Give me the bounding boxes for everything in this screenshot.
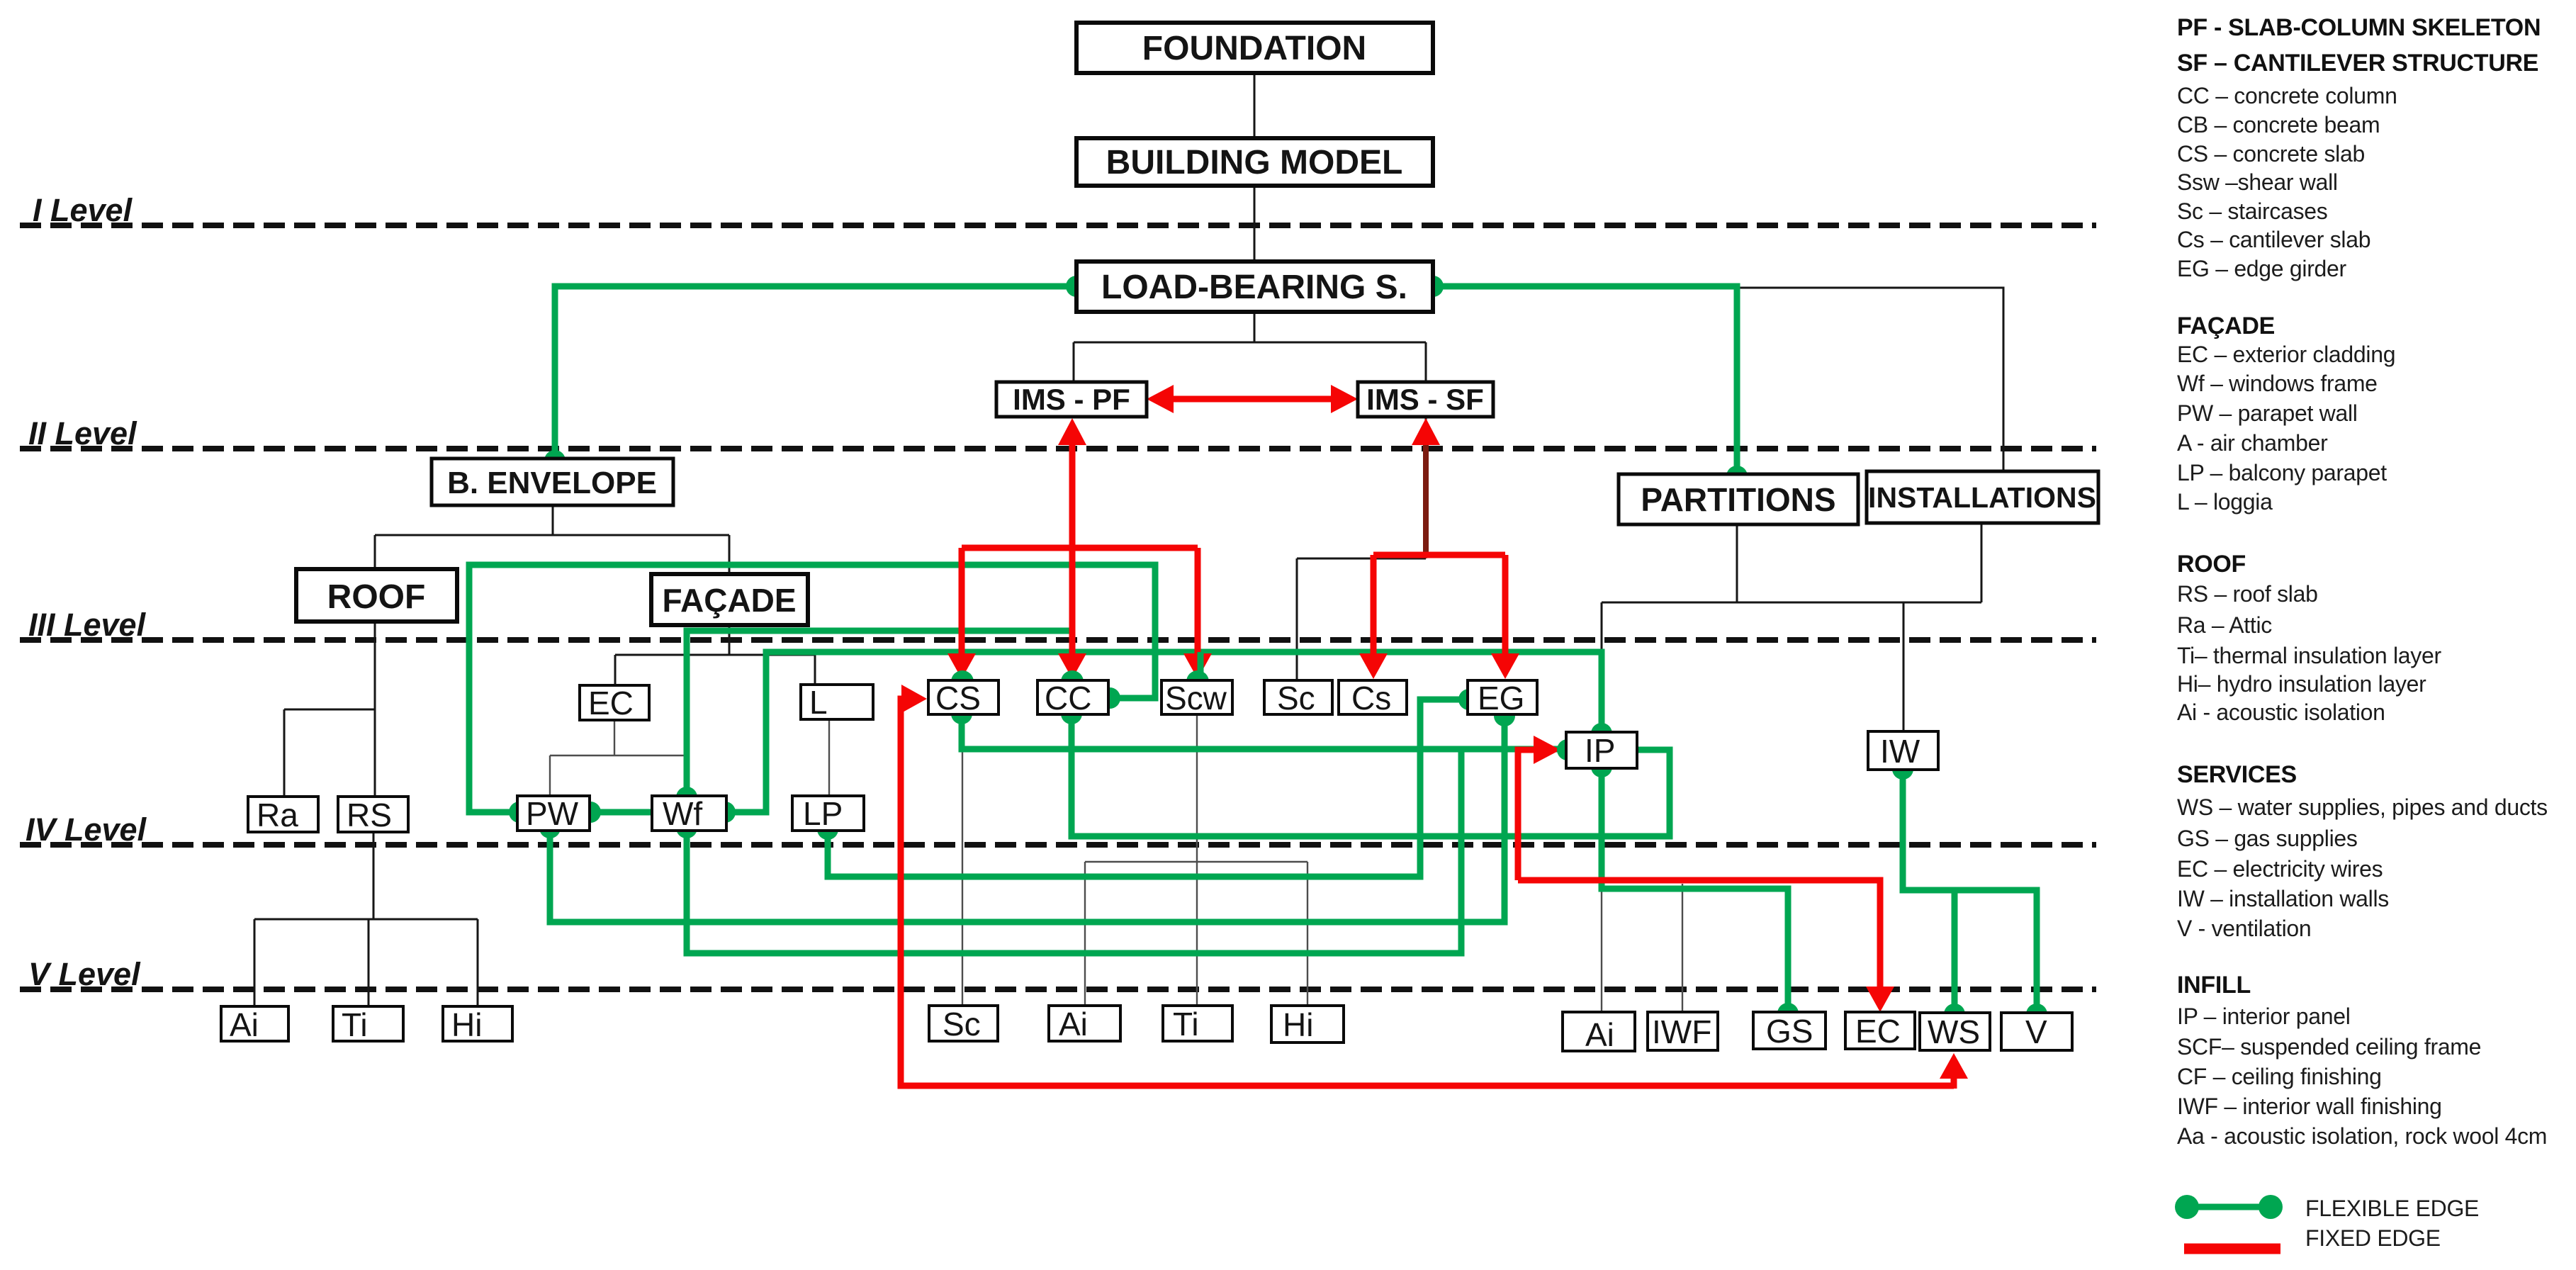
svg-text:A - air chamber: A - air chamber: [2177, 430, 2328, 456]
svg-text:Wf: Wf: [663, 795, 702, 832]
node dot Wf bottom: [676, 817, 697, 838]
flexible edge Wf bottom junction: [687, 749, 1461, 953]
node dot CC bottom: [1061, 703, 1082, 724]
node dot IP top: [1591, 723, 1612, 744]
wire FACADE to EC and L: [615, 623, 815, 685]
svg-text:IMS - SF: IMS - SF: [1366, 383, 1484, 416]
svg-text:EC – exterior cladding: EC – exterior cladding: [2177, 342, 2395, 367]
level line III: [20, 637, 2096, 643]
svg-text:L – loggia: L – loggia: [2177, 489, 2273, 515]
svg-text:CS: CS: [935, 680, 981, 717]
box Hi bottom: [1271, 1006, 1344, 1043]
wire Scw to Ai Ti Hi bottom: [1085, 714, 1307, 1006]
fixed edge IP to EC: [1518, 750, 1880, 998]
node dot WS top: [1944, 1004, 1965, 1025]
svg-text:CF – ceiling finishing: CF – ceiling finishing: [2177, 1064, 2382, 1089]
svg-text:Ra – Attic: Ra – Attic: [2177, 612, 2272, 638]
node dot LOAD-BEARING left: [1066, 276, 1087, 297]
node dot B.ENVELOPE top: [544, 450, 566, 471]
fixed edge IMS-PF tree to CS CC Scw: [962, 548, 1198, 663]
box EC services: [1845, 1012, 1915, 1049]
wire stub CS top: [960, 652, 966, 677]
svg-text:Ra: Ra: [257, 797, 298, 833]
wire stub Scw top: [1195, 652, 1201, 679]
node dot EG bottom: [1494, 705, 1515, 726]
wire PARTITIONS INSTALLATIONS to IW: [1602, 523, 1981, 732]
svg-text:PARTITIONS: PARTITIONS: [1641, 481, 1835, 518]
svg-text:EG: EG: [1478, 680, 1524, 717]
wire LOAD-BEARING S. to IMS boxes: [1074, 312, 1426, 382]
flexible edge IP bottom to GS: [1602, 768, 1788, 1012]
box IWF: [1648, 1012, 1718, 1050]
node dot CC right: [1099, 687, 1120, 709]
svg-text:EC – electricity wires: EC – electricity wires: [2177, 856, 2383, 882]
svg-text:II Level: II Level: [28, 415, 137, 451]
svg-text:Aa - acoustic isolation, rock: Aa - acoustic isolation, rock wool 4cm: [2177, 1123, 2547, 1149]
svg-text:RS – roof slab: RS – roof slab: [2177, 581, 2318, 607]
svg-text:Ai - acoustic isolation: Ai - acoustic isolation: [2177, 699, 2385, 725]
svg-text:Ai: Ai: [230, 1006, 259, 1043]
box Scw: [1162, 680, 1232, 714]
level line IV: [20, 842, 2096, 848]
svg-text:IW – installation walls: IW – installation walls: [2177, 886, 2389, 911]
svg-text:SF – CANTILEVER STRUCTURE: SF – CANTILEVER STRUCTURE: [2177, 50, 2538, 77]
svg-text:FLEXIBLE EDGE: FLEXIBLE EDGE: [2305, 1196, 2479, 1221]
flexible edge IW to WS and V: [1903, 770, 2037, 1013]
node dot CS top: [951, 670, 974, 693]
svg-text:Ti: Ti: [342, 1006, 368, 1043]
flexible edge LP to EG left: [828, 699, 1468, 877]
node dot PW right: [580, 802, 601, 823]
box Hi left: [443, 1006, 512, 1041]
wire IMS-SF to Sc: [1297, 417, 1426, 680]
svg-text:Sc: Sc: [943, 1006, 981, 1043]
svg-text:I Level: I Level: [33, 192, 133, 228]
box Wf: [652, 796, 726, 831]
fixed edge IMS-PF IMS-SF double arrow: [1165, 396, 1339, 403]
svg-text:SCF– suspended ceiling frame: SCF– suspended ceiling frame: [2177, 1034, 2481, 1060]
node dot IP right: [1610, 739, 1631, 760]
box IW: [1868, 731, 1938, 770]
node dot LOAD-BEARING right: [1422, 276, 1444, 297]
fixed edge stem into IMS-SF dark: [1423, 432, 1429, 555]
node dot PARTITIONS top: [1726, 466, 1748, 487]
svg-text:PF - SLAB-COLUMN SKELETON: PF - SLAB-COLUMN SKELETON: [2177, 14, 2541, 41]
svg-text:IP: IP: [1585, 732, 1615, 769]
wire stub Scw top over: [1198, 652, 1204, 679]
svg-text:Wf – windows frame: Wf – windows frame: [2177, 371, 2378, 396]
level line I: [20, 223, 2096, 228]
svg-text:Ai: Ai: [1059, 1006, 1088, 1043]
fixed edge IMS-SF tree to Cs EG: [1373, 555, 1505, 663]
svg-text:SERVICES: SERVICES: [2177, 761, 2297, 788]
node dot Wf right: [714, 802, 736, 823]
svg-text:GS – gas supplies: GS – gas supplies: [2177, 826, 2358, 851]
box PARTITIONS: [1619, 474, 1858, 524]
box GS: [1753, 1012, 1826, 1049]
svg-text:CS – concrete slab: CS – concrete slab: [2177, 141, 2365, 167]
svg-text:LOAD-BEARING S.: LOAD-BEARING S.: [1101, 269, 1407, 306]
svg-text:V: V: [2025, 1013, 2047, 1050]
svg-text:FAÇADE: FAÇADE: [662, 582, 796, 619]
svg-text:BUILDING MODEL: BUILDING MODEL: [1106, 144, 1403, 181]
svg-text:IWF – interior wall finishing: IWF – interior wall finishing: [2177, 1094, 2442, 1119]
svg-text:Ai: Ai: [1585, 1016, 1614, 1053]
wire FOUNDATION to BUILDING MODEL: [1254, 73, 1256, 138]
node dot IW bottom: [1892, 758, 1913, 780]
node dot V top: [2026, 1004, 2047, 1025]
svg-text:V - ventilation: V - ventilation: [2177, 916, 2311, 941]
svg-text:EC: EC: [1855, 1013, 1901, 1050]
box EC facade: [580, 685, 649, 720]
svg-text:Hi: Hi: [451, 1006, 482, 1043]
flexible edge CC bottom to IP right: [1072, 714, 1670, 836]
box WS: [1920, 1013, 1990, 1050]
wire IWF stub: [1682, 884, 1683, 1012]
svg-text:GS: GS: [1766, 1013, 1813, 1050]
svg-text:V Level: V Level: [28, 956, 141, 992]
svg-text:IW: IW: [1880, 733, 1920, 770]
flexible edge LOAD-BEARING to PARTITIONS: [1433, 286, 1737, 474]
box PW: [517, 796, 590, 831]
svg-text:IWF: IWF: [1652, 1013, 1711, 1050]
svg-text:PW – parapet wall: PW – parapet wall: [2177, 400, 2358, 426]
fixed edge WS to CS: [901, 699, 1954, 1086]
fixed edge stem into IMS-PF: [1069, 434, 1076, 548]
flexible edge LOAD-BEARING to B.ENVELOPE: [555, 286, 1076, 459]
svg-text:INFILL: INFILL: [2177, 972, 2251, 999]
flexible edge PW bottom to EG bottom: [550, 717, 1504, 922]
flexible edge CS bottom to IP left: [962, 714, 1565, 749]
box V: [2001, 1013, 2072, 1050]
svg-text:ROOF: ROOF: [2177, 551, 2246, 578]
flexible edge Wf right to IP top: [726, 652, 1602, 812]
flexible edge Wf top to CC top: [687, 631, 1072, 796]
box LOAD-BEARING S.: [1076, 262, 1433, 312]
svg-text:III Level: III Level: [28, 607, 147, 643]
wire to INSTALLATIONS: [1433, 288, 2003, 471]
box FACADE: [651, 574, 808, 625]
svg-text:Ti– thermal insulation layer: Ti– thermal insulation layer: [2177, 643, 2441, 668]
svg-text:WS – water supplies, pipes and: WS – water supplies, pipes and ducts: [2177, 794, 2548, 820]
box IP: [1566, 732, 1637, 768]
wire BUILDING MODEL to LOAD-BEARING S.: [1254, 186, 1256, 262]
svg-text:Scw: Scw: [1165, 680, 1227, 717]
box INSTALLATIONS: [1867, 471, 2098, 523]
box Ai bottom: [1049, 1006, 1120, 1041]
node dot Wf top: [676, 787, 697, 808]
box Ti bottom: [1163, 1006, 1232, 1041]
svg-text:IMS - PF: IMS - PF: [1013, 383, 1130, 416]
svg-text:CB – concrete beam: CB – concrete beam: [2177, 112, 2380, 137]
wire ROOF to Ra and RS: [284, 619, 375, 797]
node dot IP left: [1557, 739, 1578, 760]
box Ti left: [333, 1006, 403, 1041]
svg-text:CC – concrete column: CC – concrete column: [2177, 83, 2397, 108]
box B. ENVELOPE: [432, 459, 673, 505]
svg-text:FIXED EDGE: FIXED EDGE: [2305, 1225, 2441, 1251]
flexible edge PW to CC right: [469, 565, 1155, 812]
svg-text:Sc – staircases: Sc – staircases: [2177, 198, 2327, 224]
legend flexible edge sample: [2187, 1204, 2271, 1210]
svg-text:B. ENVELOPE: B. ENVELOPE: [447, 466, 657, 500]
svg-text:Cs – cantilever slab: Cs – cantilever slab: [2177, 227, 2370, 252]
svg-text:PW: PW: [526, 795, 579, 832]
box Cs mid: [1339, 680, 1407, 714]
wire CS to Sc bottom: [962, 714, 963, 1006]
wire RS to Ai Ti Hi: [254, 832, 478, 1006]
svg-text:Hi: Hi: [1283, 1006, 1313, 1043]
svg-text:Sc: Sc: [1277, 680, 1315, 717]
svg-text:Cs: Cs: [1351, 680, 1391, 717]
svg-text:L: L: [809, 684, 828, 721]
box CS: [928, 680, 999, 714]
node dot LP bottom: [817, 819, 838, 840]
svg-text:LP: LP: [803, 795, 843, 832]
box Ai left: [221, 1006, 288, 1041]
svg-text:INSTALLATIONS: INSTALLATIONS: [1868, 481, 2096, 514]
box RS: [338, 797, 408, 832]
box IMS - SF: [1358, 382, 1493, 417]
box Sc bottom: [929, 1006, 998, 1041]
node dot GS top: [1777, 1003, 1799, 1024]
box EG: [1468, 680, 1537, 714]
legend fixed edge sample: [2184, 1244, 2280, 1254]
box BUILDING MODEL: [1076, 138, 1433, 186]
box CC: [1037, 680, 1108, 714]
svg-text:LP – balcony parapet: LP – balcony parapet: [2177, 460, 2387, 485]
box Ra: [248, 797, 318, 832]
node dot PW left: [509, 802, 530, 823]
svg-text:IV Level: IV Level: [26, 811, 147, 848]
node dot PW bottom: [539, 817, 561, 838]
svg-text:Ssw –shear wall: Ssw –shear wall: [2177, 169, 2338, 195]
wire B.ENVELOPE to ROOF and FACADE: [375, 505, 729, 577]
svg-text:EG – edge girder: EG – edge girder: [2177, 256, 2347, 281]
svg-text:IP – interior panel: IP – interior panel: [2177, 1004, 2351, 1029]
svg-text:FOUNDATION: FOUNDATION: [1142, 30, 1366, 67]
wire EC to PW and Wf: [550, 720, 688, 796]
node dot IP bottom: [1591, 756, 1612, 777]
svg-text:CC: CC: [1045, 680, 1091, 717]
svg-text:Hi– hydro insulation layer: Hi– hydro insulation layer: [2177, 671, 2426, 697]
svg-text:WS: WS: [1928, 1013, 1980, 1050]
svg-text:RS: RS: [347, 797, 392, 833]
box Sc mid: [1264, 680, 1332, 714]
flexible edge PW to Wf: [590, 809, 652, 816]
wire IP to Ai right: [1601, 768, 1602, 1012]
box FOUNDATION: [1076, 23, 1433, 73]
level line II: [20, 446, 2096, 451]
svg-text:ROOF: ROOF: [327, 578, 426, 616]
box IMS - PF: [996, 382, 1147, 417]
node dot Scw top: [1186, 670, 1209, 693]
node dot CS bottom: [951, 703, 972, 724]
box Ai right: [1563, 1012, 1635, 1051]
box LP: [792, 796, 864, 831]
svg-text:FAÇADE: FAÇADE: [2177, 313, 2275, 339]
box ROOF: [296, 569, 457, 622]
svg-text:Ti: Ti: [1173, 1006, 1199, 1043]
level line V: [20, 987, 2096, 992]
wire L to LP: [828, 719, 830, 796]
node dot CC top: [1061, 670, 1084, 693]
node dot EG left: [1458, 689, 1480, 710]
svg-text:EC: EC: [588, 685, 634, 721]
box L: [801, 685, 873, 719]
